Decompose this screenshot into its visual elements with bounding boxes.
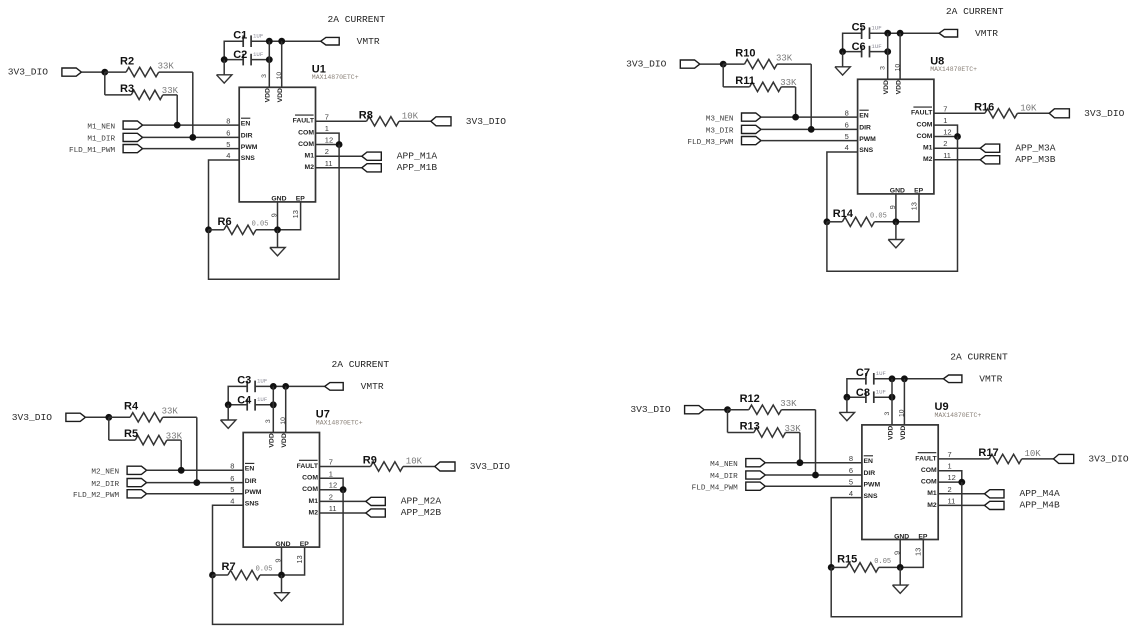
svg-text:APP_M2A: APP_M2A — [401, 496, 442, 507]
svg-text:6: 6 — [226, 129, 230, 138]
wire: C4 right plate to VDD pin 3 column — [255, 404, 273, 406]
svg-text:COM: COM — [302, 486, 318, 493]
junction E (VDD pin3 column at cap row 1) — [889, 375, 896, 382]
wire: M1 pin 2 to APP_M1A tag — [316, 155, 362, 157]
svg-text:VDD: VDD — [269, 433, 276, 447]
net label 3V3_DIO (output tag, right) — [435, 462, 455, 471]
svg-text:R3: R3 — [120, 83, 134, 95]
svg-text:13: 13 — [291, 210, 300, 218]
svg-text:1UF: 1UF — [871, 43, 882, 50]
svg-text:12: 12 — [325, 136, 333, 145]
svg-text:5: 5 — [226, 140, 230, 149]
net label 3V3_DIO (output tag, right) — [431, 117, 451, 126]
svg-text:11: 11 — [948, 496, 956, 505]
wire: C6 right plate to VDD pin 3 column — [870, 51, 888, 53]
svg-text:APP_M3B: APP_M3B — [1015, 154, 1056, 165]
svg-text:12: 12 — [948, 473, 956, 482]
junction A (3V3_DIO split to R10/R11) — [720, 61, 727, 68]
svg-text:MAX14870ETC+: MAX14870ETC+ — [935, 412, 982, 419]
wire: ground stem (caps) — [842, 52, 844, 67]
svg-text:GND: GND — [275, 541, 290, 548]
wire: C4 left plate to ground — [228, 404, 247, 406]
ground symbol (caps) — [217, 75, 232, 83]
resistor R12 33K (3V3_DIO pull-up to DIR) — [728, 409, 749, 411]
net label VMTR (output tag) — [325, 383, 344, 391]
svg-text:7: 7 — [325, 112, 329, 121]
junction D (C4 left / ground) — [225, 401, 232, 408]
svg-text:13: 13 — [909, 202, 918, 210]
svg-text:PWM: PWM — [864, 481, 881, 488]
svg-text:2A CURRENT: 2A CURRENT — [332, 359, 390, 370]
wire: ground stem (caps) — [846, 397, 848, 412]
wire: GND pin 9 stub — [281, 547, 283, 575]
svg-text:3V3_DIO: 3V3_DIO — [630, 404, 671, 415]
wire: SNS pin 4 return — [209, 160, 240, 230]
svg-text:FAULT: FAULT — [297, 463, 319, 470]
junction J (R6 right / GND) — [274, 226, 281, 233]
svg-text:33K: 33K — [785, 424, 802, 434]
wire: C3 left plate to ground column — [228, 386, 247, 404]
svg-text:APP_M1B: APP_M1B — [397, 162, 438, 173]
svg-text:GND: GND — [890, 188, 905, 195]
svg-text:M2: M2 — [923, 156, 933, 163]
wire: COM pin 1 to COM bus — [316, 133, 340, 144]
svg-text:FAULT: FAULT — [293, 118, 315, 125]
svg-text:10K: 10K — [1020, 103, 1037, 113]
svg-text:DIR: DIR — [859, 125, 871, 132]
wire: COM pin 12 stub — [938, 481, 962, 483]
svg-text:APP_M2B: APP_M2B — [401, 507, 442, 518]
junction F (VDD pin3 column at cap row 2) — [889, 394, 896, 401]
svg-text:5: 5 — [845, 132, 849, 141]
svg-text:M2_NEN: M2_NEN — [91, 469, 119, 477]
capacitor C6 1UF (VDD decoupling) — [861, 46, 863, 58]
junction E (VDD pin3 column at cap row 1) — [270, 383, 277, 390]
svg-text:1UF: 1UF — [871, 24, 882, 31]
svg-text:0.05: 0.05 — [874, 558, 891, 566]
svg-text:3V3_DIO: 3V3_DIO — [1084, 108, 1125, 119]
svg-text:EN: EN — [864, 458, 874, 465]
svg-text:8: 8 — [226, 116, 230, 125]
junction A (3V3_DIO split to R12/R13) — [724, 406, 731, 413]
ground symbol (caps) — [839, 412, 854, 420]
capacitor C5 1UF (VDD decoupling) — [861, 27, 863, 39]
net label FLD_M2_PWM (input tag) — [127, 490, 147, 498]
junction I (R7 left / SNS) — [209, 572, 216, 579]
junction C (DIR row) — [808, 126, 815, 133]
svg-text:10: 10 — [280, 417, 287, 425]
svg-text:R10: R10 — [735, 47, 755, 59]
svg-text:8: 8 — [845, 108, 849, 117]
capacitor C7 1UF (VDD decoupling) — [865, 373, 867, 385]
svg-text:2A CURRENT: 2A CURRENT — [946, 6, 1004, 17]
svg-text:M2_DIR: M2_DIR — [91, 481, 119, 489]
wire: 3V3_DIO tag to junction A — [704, 409, 727, 411]
wire: M2_NEN to EN pin 8 — [147, 469, 244, 471]
junction H (COM bus) — [954, 133, 961, 140]
resistor R9 10K (FAULT pull-up) — [320, 466, 371, 468]
svg-text:VDD: VDD — [896, 80, 903, 94]
svg-text:M1: M1 — [305, 153, 315, 160]
net label APP_M4A (output tag) — [985, 490, 1005, 498]
resistor R2 33K (3V3_DIO pull-up to DIR) — [105, 71, 126, 73]
svg-text:DIR: DIR — [245, 478, 257, 485]
wire: COM pin 1 to COM bus — [934, 125, 958, 136]
svg-text:COM: COM — [921, 467, 937, 474]
svg-text:2A CURRENT: 2A CURRENT — [328, 14, 386, 25]
svg-text:1: 1 — [329, 469, 333, 478]
wire: VDD pin 10 riser — [285, 386, 287, 432]
svg-text:2: 2 — [325, 147, 329, 156]
wire: COM pin 12 stub — [934, 136, 958, 138]
wire: R10 to DIR junction — [810, 64, 812, 129]
svg-text:2: 2 — [948, 485, 952, 494]
svg-text:2A CURRENT: 2A CURRENT — [950, 351, 1008, 362]
wire: R13 to EN junction — [799, 433, 801, 463]
wire: SNS pin 4 return — [827, 152, 858, 222]
wire: COM loop to sense resistor — [831, 482, 962, 617]
svg-text:1UF: 1UF — [876, 389, 887, 396]
wire: 3V3_DIO tag to junction A — [85, 416, 108, 418]
net label M2_NEN (input tag) — [127, 466, 147, 474]
wire: ground stem (GND pin) — [895, 222, 897, 240]
svg-text:M1: M1 — [923, 145, 933, 152]
svg-text:C7: C7 — [856, 367, 870, 379]
net label APP_M3A (output tag) — [980, 144, 1000, 152]
svg-text:M2: M2 — [309, 509, 319, 516]
junction J (R14 right / GND) — [893, 218, 900, 225]
junction B (EN row) — [792, 114, 799, 121]
svg-text:COM: COM — [917, 133, 933, 140]
svg-text:3: 3 — [884, 412, 891, 416]
svg-text:SNS: SNS — [245, 500, 259, 507]
junction G (VMTR / VDD pin10 column) — [897, 30, 904, 37]
svg-text:SNS: SNS — [859, 147, 873, 154]
svg-text:R17: R17 — [978, 447, 998, 459]
junction C (DIR row) — [193, 479, 200, 486]
svg-text:8: 8 — [230, 462, 234, 471]
svg-text:FLD_M1_PWM: FLD_M1_PWM — [69, 147, 116, 155]
wire: C7 left plate to ground column — [847, 379, 866, 397]
wire: M2_DIR to DIR pin 6 — [147, 482, 244, 484]
svg-text:EN: EN — [245, 466, 255, 473]
svg-text:3V3_DIO: 3V3_DIO — [470, 461, 511, 472]
ground symbol (GND pin) — [270, 248, 285, 256]
svg-text:VDD: VDD — [265, 88, 272, 102]
wire: FLD_M3_PWM to PWM pin 5 — [761, 140, 858, 142]
wire: COM pin 1 to COM bus — [938, 471, 962, 482]
svg-text:4: 4 — [845, 143, 849, 152]
svg-text:APP_M4A: APP_M4A — [1020, 488, 1061, 499]
svg-text:12: 12 — [943, 128, 951, 137]
net label APP_M4B (output tag) — [985, 501, 1005, 509]
net label VMTR (output tag) — [939, 29, 958, 37]
svg-text:1UF: 1UF — [253, 32, 264, 39]
svg-text:MAX14870ETC+: MAX14870ETC+ — [312, 74, 359, 81]
svg-text:10: 10 — [894, 64, 901, 72]
junction F (VDD pin3 column at cap row 2) — [884, 48, 891, 55]
wire: M1 pin 2 to APP_M4A tag — [938, 493, 984, 495]
resistor R10 33K (3V3_DIO pull-up to DIR) — [723, 63, 744, 65]
svg-text:1UF: 1UF — [876, 370, 887, 377]
wire: FLD_M1_PWM to PWM pin 5 — [143, 148, 240, 150]
svg-text:10: 10 — [276, 72, 283, 80]
wire: VDD pin 10 riser — [899, 33, 901, 79]
svg-text:R11: R11 — [735, 75, 755, 87]
svg-text:8: 8 — [849, 454, 853, 463]
svg-text:M4_DIR: M4_DIR — [710, 473, 738, 481]
net label 3V3_DIO (output tag, right) — [1049, 109, 1069, 118]
svg-text:3V3_DIO: 3V3_DIO — [8, 67, 49, 78]
resistor R7 0.05 (current sense) — [213, 574, 228, 576]
svg-text:R2: R2 — [120, 55, 134, 67]
capacitor C8 1UF (VDD decoupling) — [865, 391, 867, 403]
svg-text:1UF: 1UF — [257, 378, 268, 385]
svg-text:C3: C3 — [237, 375, 251, 387]
net label FLD_M4_PWM (input tag) — [746, 482, 766, 490]
svg-text:EP: EP — [914, 188, 924, 195]
net label FLD_M1_PWM (input tag) — [123, 145, 143, 153]
svg-text:APP_M1A: APP_M1A — [397, 150, 438, 161]
wire: M1 pin 2 to APP_M3A tag — [934, 147, 980, 149]
net label APP_M2A (output tag) — [366, 497, 386, 505]
wire: M1 pin 2 to APP_M2A tag — [320, 500, 366, 502]
wire: EP pin 13 stub — [282, 547, 305, 575]
svg-text:GND: GND — [271, 196, 286, 203]
wire: GND pin 9 stub — [899, 540, 901, 568]
wire: C7 right plate to VDD rail — [874, 378, 944, 380]
junction D (C2 left / ground) — [221, 56, 228, 63]
svg-text:33K: 33K — [158, 61, 175, 71]
svg-text:VDD: VDD — [281, 433, 288, 447]
net label M4_NEN (input tag) — [746, 459, 766, 467]
wire: COM loop to sense resistor — [209, 145, 340, 280]
svg-text:1: 1 — [948, 462, 952, 471]
svg-text:33K: 33K — [166, 431, 183, 441]
svg-text:M1: M1 — [927, 490, 937, 497]
svg-text:2: 2 — [943, 139, 947, 148]
junction C (DIR row) — [189, 134, 196, 141]
IC U8 MAX14870ETC+ (motor driver) body — [858, 79, 934, 194]
IC U7 MAX14870ETC+ (motor driver) body — [243, 433, 319, 548]
resistor R14 0.05 (current sense) — [827, 221, 842, 223]
net label APP_M1B (output tag) — [362, 164, 382, 172]
svg-text:VDD: VDD — [887, 426, 894, 440]
svg-text:FLD_M4_PWM: FLD_M4_PWM — [692, 484, 739, 492]
svg-text:3: 3 — [880, 66, 887, 70]
wire: M1_NEN to EN pin 8 — [143, 124, 240, 126]
net label 3V3_DIO (input tag, left) — [680, 60, 700, 68]
resistor R16 10K (FAULT pull-up) — [934, 112, 985, 114]
svg-text:R13: R13 — [740, 421, 760, 433]
wire: R11 to EN junction — [795, 87, 797, 117]
svg-text:4: 4 — [226, 151, 230, 160]
svg-text:COM: COM — [302, 475, 318, 482]
net label M1_NEN (input tag) — [123, 121, 143, 129]
junction I (R6 left / SNS) — [205, 226, 212, 233]
junction B (EN row) — [797, 459, 804, 466]
net label M4_DIR (input tag) — [746, 471, 766, 479]
wire: SNS pin 4 return — [213, 505, 244, 575]
junction H (COM bus) — [958, 479, 965, 486]
wire: C2 left plate to ground — [224, 59, 243, 61]
junction C (DIR row) — [812, 472, 819, 479]
junction H (COM bus) — [340, 486, 347, 493]
svg-text:MAX14870ETC+: MAX14870ETC+ — [930, 66, 977, 73]
svg-text:3V3_DIO: 3V3_DIO — [1088, 453, 1129, 464]
net label APP_M1A (output tag) — [362, 152, 382, 160]
svg-text:7: 7 — [329, 458, 333, 467]
svg-text:VMTR: VMTR — [357, 36, 380, 47]
svg-text:VDD: VDD — [277, 88, 284, 102]
resistor R11 33K (3V3_DIO pull-up to EN) — [722, 64, 724, 87]
wire: C3 right plate to VDD rail — [255, 385, 325, 387]
svg-text:11: 11 — [943, 151, 951, 160]
wire: M3_NEN to EN pin 8 — [761, 116, 858, 118]
junction E (VDD pin3 column at cap row 1) — [884, 30, 891, 37]
wire: COM loop to sense resistor — [827, 137, 958, 272]
svg-text:1: 1 — [325, 124, 329, 133]
svg-text:VDD: VDD — [900, 426, 907, 440]
wire: ground stem (caps) — [223, 60, 225, 75]
junction J (R7 right / GND) — [278, 572, 285, 579]
wire: R12 to DIR junction — [815, 410, 817, 475]
svg-text:10: 10 — [899, 409, 906, 417]
svg-text:3V3_DIO: 3V3_DIO — [12, 412, 53, 423]
svg-text:10K: 10K — [406, 457, 423, 467]
wire: M2 pin 11 to APP_M3B tag — [934, 159, 980, 161]
wire: VDD pin 3 riser — [891, 379, 893, 425]
svg-text:M1_NEN: M1_NEN — [87, 123, 115, 131]
svg-text:33K: 33K — [162, 407, 179, 417]
net label M2_DIR (input tag) — [127, 479, 147, 487]
net label 3V3_DIO (input tag, left) — [685, 406, 705, 414]
svg-text:4: 4 — [230, 496, 234, 505]
svg-text:12: 12 — [329, 481, 337, 490]
ground symbol (caps) — [835, 67, 850, 75]
capacitor C4 1UF (VDD decoupling) — [246, 399, 248, 411]
resistor R8 10K (FAULT pull-up) — [316, 120, 367, 122]
svg-text:3V3_DIO: 3V3_DIO — [466, 116, 507, 127]
wire: GND pin 9 stub — [895, 194, 897, 222]
junction I (R15 left / SNS) — [828, 564, 835, 571]
wire: M4_DIR to DIR pin 6 — [765, 474, 862, 476]
svg-text:COM: COM — [917, 122, 933, 129]
wire: ground stem (GND pin) — [277, 230, 279, 248]
ground symbol (GND pin) — [888, 240, 903, 248]
svg-text:6: 6 — [845, 121, 849, 130]
svg-text:R8: R8 — [359, 109, 373, 121]
wire: COM pin 1 to COM bus — [320, 478, 344, 489]
wire: COM pin 12 stub — [320, 489, 344, 491]
resistor R3 33K (3V3_DIO pull-up to EN) — [104, 72, 106, 95]
net label M1_DIR (input tag) — [123, 133, 143, 141]
svg-text:EP: EP — [918, 533, 928, 540]
wire: COM pin 12 stub — [316, 144, 340, 146]
svg-text:VMTR: VMTR — [979, 374, 1002, 385]
svg-text:R9: R9 — [363, 455, 377, 467]
svg-text:3: 3 — [265, 419, 272, 423]
junction D (C6 left / ground) — [839, 48, 846, 55]
svg-text:R4: R4 — [124, 401, 139, 413]
resistor R5 33K (3V3_DIO pull-up to EN) — [108, 417, 110, 440]
svg-text:0.05: 0.05 — [870, 212, 887, 220]
net label 3V3_DIO (input tag, left) — [62, 68, 82, 76]
svg-text:COM: COM — [298, 130, 314, 137]
svg-text:R16: R16 — [974, 101, 994, 113]
wire: VDD pin 3 riser — [887, 33, 889, 79]
wire: VDD pin 3 riser — [272, 386, 274, 432]
wire: M2 pin 11 to APP_M1B tag — [316, 167, 362, 169]
wire: M3_DIR to DIR pin 6 — [761, 128, 858, 130]
wire: EP pin 13 stub — [900, 540, 923, 568]
wire: C1 left plate to ground column — [224, 41, 243, 59]
wire: FLD_M2_PWM to PWM pin 5 — [147, 493, 244, 495]
junction A (3V3_DIO split to R4/R5) — [105, 414, 112, 421]
svg-text:VMTR: VMTR — [975, 28, 998, 39]
svg-text:1UF: 1UF — [257, 396, 268, 403]
svg-text:R12: R12 — [740, 393, 760, 405]
svg-text:M1_DIR: M1_DIR — [87, 136, 115, 144]
svg-text:SNS: SNS — [241, 155, 255, 162]
wire: 3V3_DIO tag to junction A — [700, 63, 723, 65]
svg-text:7: 7 — [948, 450, 952, 459]
junction F (VDD pin3 column at cap row 2) — [266, 56, 273, 63]
svg-text:EP: EP — [296, 196, 306, 203]
wire: SNS pin 4 return — [831, 498, 862, 568]
wire: ground stem (GND pin) — [281, 575, 283, 593]
svg-text:3: 3 — [261, 74, 268, 78]
IC U1 MAX14870ETC+ (motor driver) body — [239, 87, 315, 202]
junction G (VMTR / VDD pin10 column) — [901, 375, 908, 382]
wire: 3V3_DIO tag to junction A — [81, 71, 104, 73]
junction D (C8 left / ground) — [844, 394, 851, 401]
svg-text:13: 13 — [295, 555, 304, 563]
junction G (VMTR / VDD pin10 column) — [278, 38, 285, 45]
ground symbol (caps) — [221, 420, 236, 428]
junction H (COM bus) — [336, 141, 343, 148]
junction B (EN row) — [174, 122, 181, 129]
svg-text:0.05: 0.05 — [256, 566, 273, 574]
svg-text:33K: 33K — [780, 399, 797, 409]
wire: C5 left plate to ground column — [843, 33, 862, 51]
svg-text:VMTR: VMTR — [361, 381, 384, 392]
svg-text:COM: COM — [921, 479, 937, 486]
svg-text:5: 5 — [230, 485, 234, 494]
svg-text:13: 13 — [914, 548, 923, 556]
wire: FLD_M4_PWM to PWM pin 5 — [765, 485, 862, 487]
resistor R4 33K (3V3_DIO pull-up to DIR) — [109, 416, 130, 418]
svg-text:C1: C1 — [233, 29, 247, 41]
wire: VDD pin 10 riser — [903, 379, 905, 425]
wire: C2 right plate to VDD pin 3 column — [251, 59, 269, 61]
svg-text:GND: GND — [894, 533, 909, 540]
svg-text:4: 4 — [849, 489, 853, 498]
svg-text:M2: M2 — [927, 502, 937, 509]
svg-text:R14: R14 — [833, 208, 854, 220]
svg-text:6: 6 — [230, 474, 234, 483]
svg-text:1UF: 1UF — [253, 51, 264, 58]
junction B (EN row) — [178, 467, 185, 474]
IC U9 MAX14870ETC+ (motor driver) body — [862, 425, 938, 540]
svg-text:MAX14870ETC+: MAX14870ETC+ — [316, 419, 363, 426]
svg-text:M3_NEN: M3_NEN — [706, 115, 734, 123]
svg-text:11: 11 — [329, 504, 337, 513]
wire: COM loop to sense resistor — [213, 490, 344, 625]
svg-text:0.05: 0.05 — [252, 220, 269, 228]
svg-text:M4_NEN: M4_NEN — [710, 461, 738, 469]
junction J (R15 right / GND) — [897, 564, 904, 571]
